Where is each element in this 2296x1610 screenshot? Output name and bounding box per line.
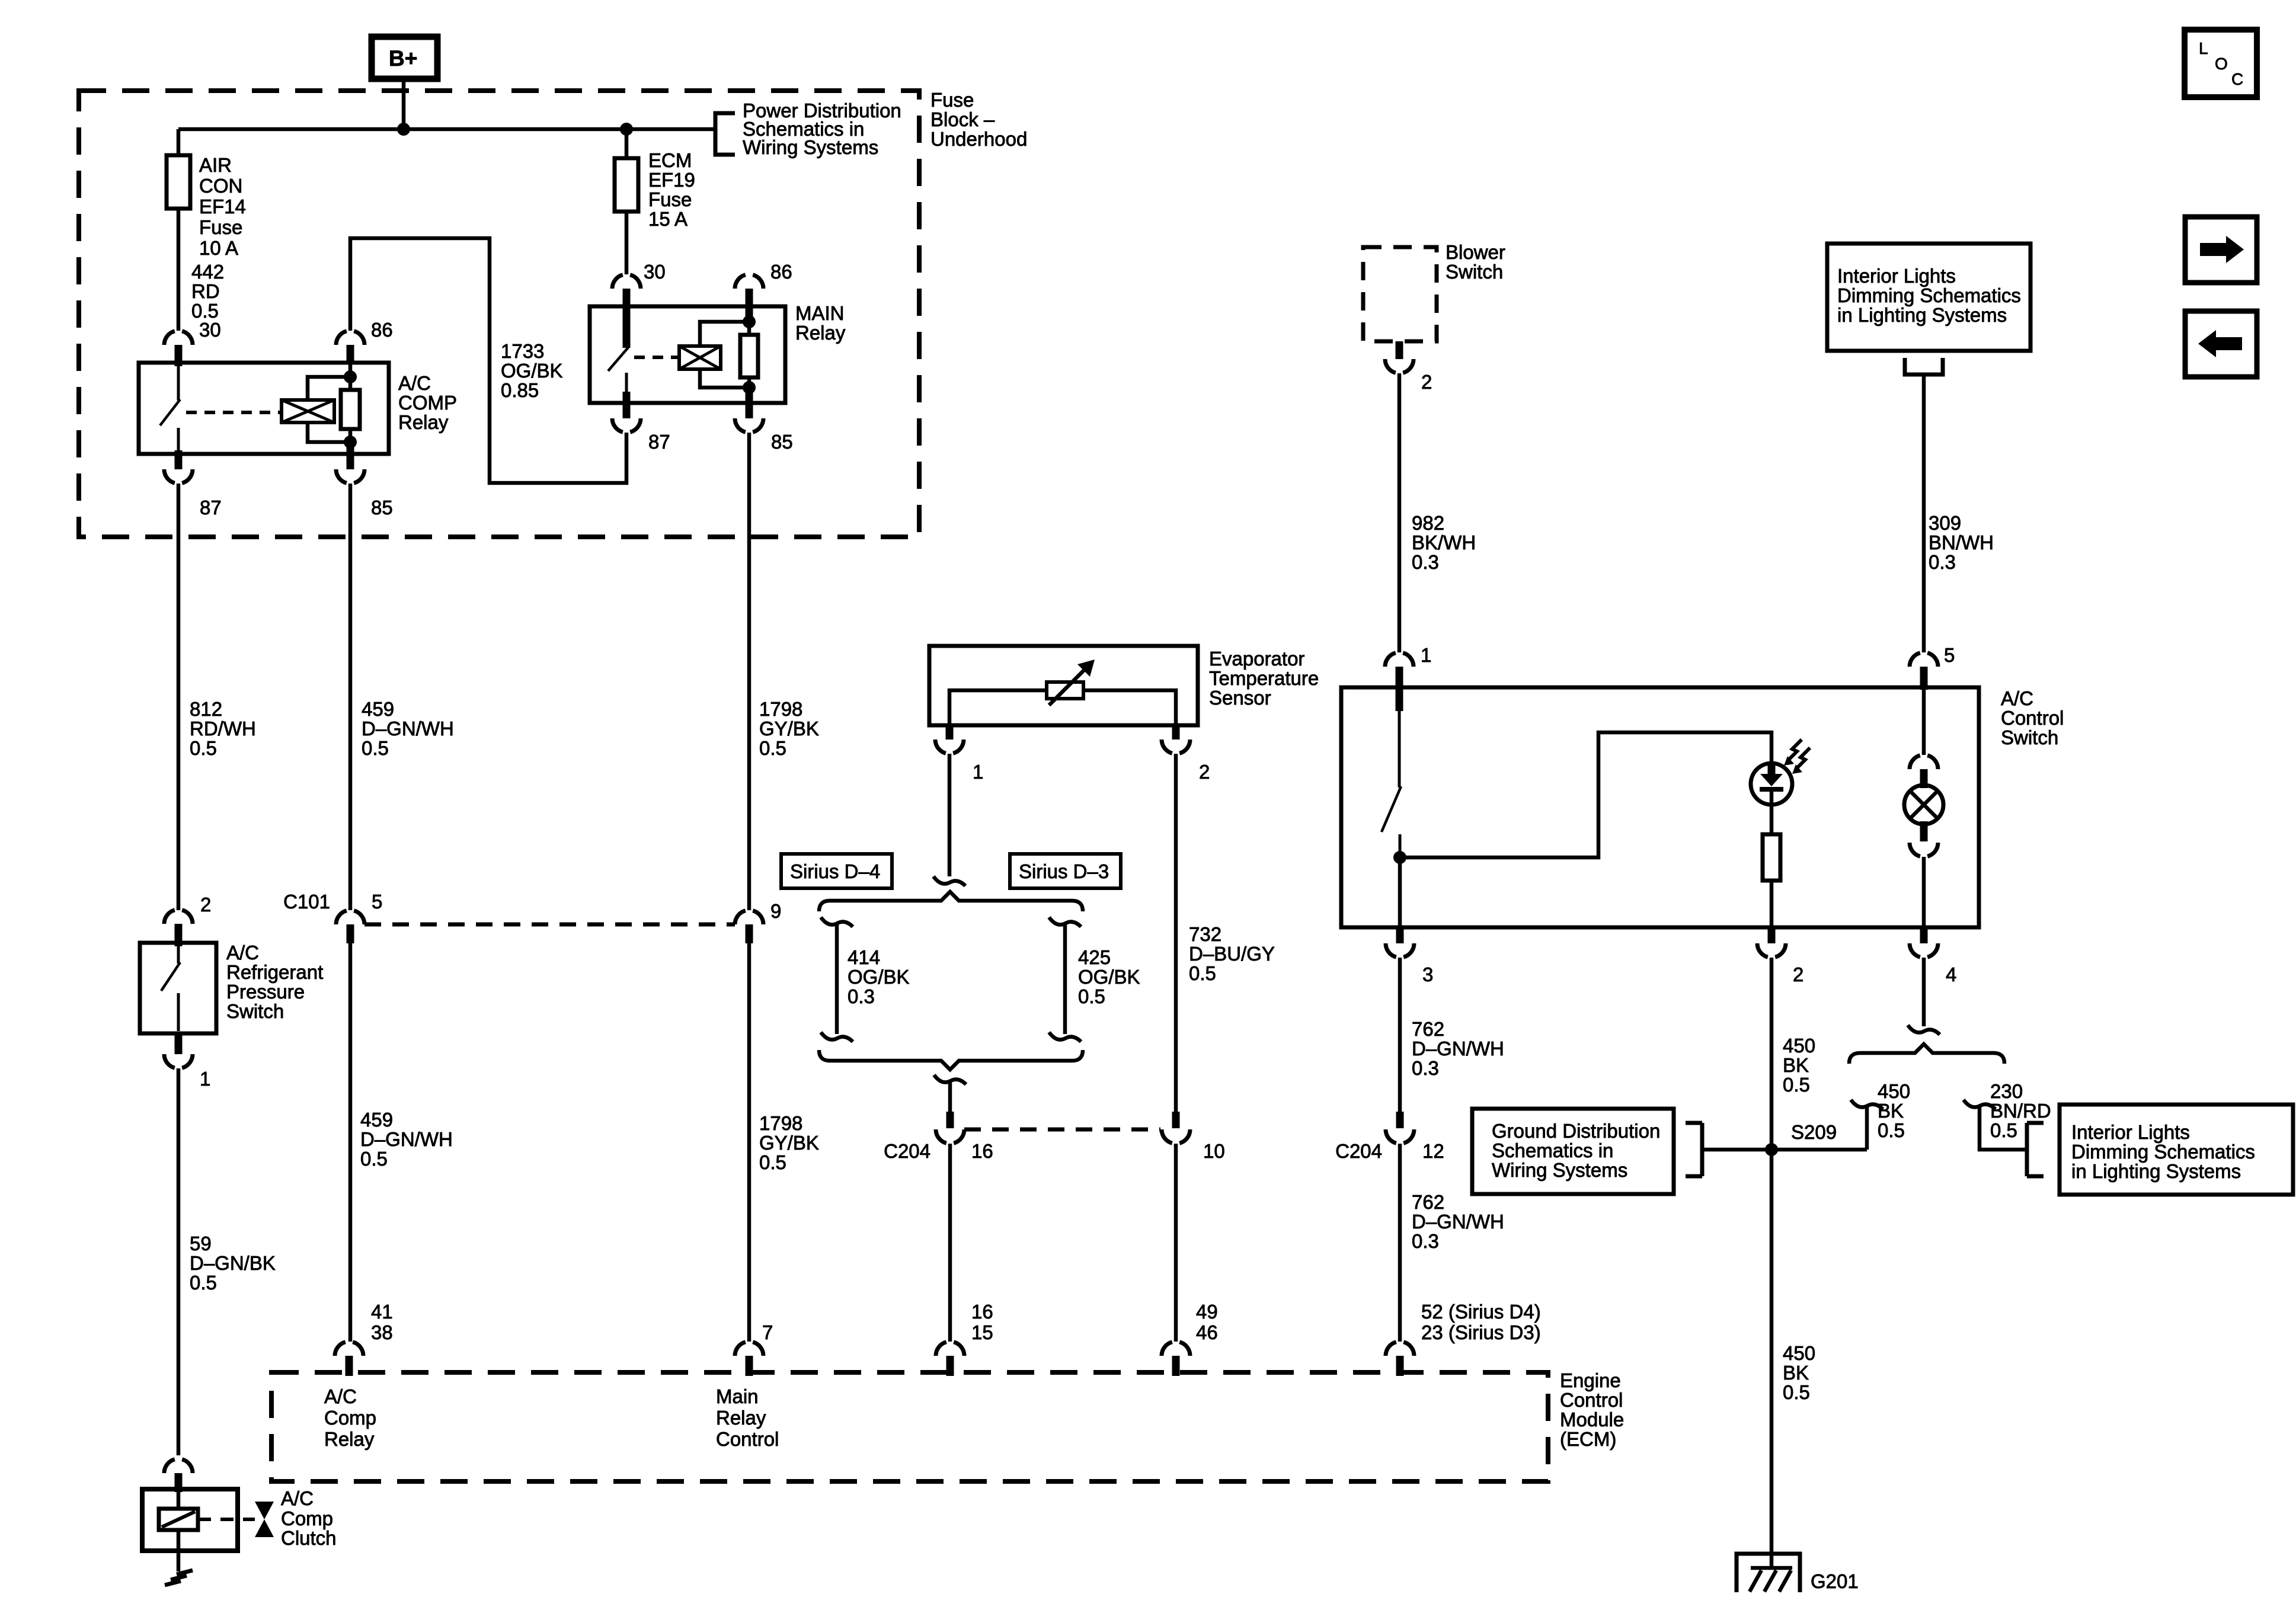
label Fuse Block - Underhood xyxy=(930,89,1027,150)
label 1733 OG/BK 0.85 xyxy=(501,340,563,401)
svg-text:450: 450 xyxy=(1878,1080,1910,1102)
wire 450 BK pin 2 to S209 xyxy=(1770,958,1774,1150)
svg-text:442: 442 xyxy=(191,261,224,283)
connector pin 9 xyxy=(735,911,763,924)
wire pin 4 to splice brace xyxy=(1922,958,1926,1026)
pin 2 stub evaporator sensor xyxy=(1172,725,1180,740)
svg-text:in Lighting Systems: in Lighting Systems xyxy=(2071,1160,2241,1182)
connector ECM pin 52/23 xyxy=(1386,1342,1414,1356)
svg-text:Dimming Schematics: Dimming Schematics xyxy=(2071,1141,2255,1163)
junction dot at B+ branch xyxy=(397,123,410,136)
svg-text:C101: C101 xyxy=(283,891,330,913)
svg-text:Wiring Systems: Wiring Systems xyxy=(1492,1159,1627,1181)
wire bus to fuse EF14 xyxy=(177,129,181,331)
svg-text:BN/WH: BN/WH xyxy=(1929,532,1994,553)
svg-text:Fuse: Fuse xyxy=(930,89,974,111)
svg-text:459: 459 xyxy=(362,698,394,720)
svg-text:86: 86 xyxy=(371,319,393,341)
A/C COMP Relay box xyxy=(139,363,389,454)
connector C204 pin 12 xyxy=(1396,1112,1404,1128)
svg-text:BK: BK xyxy=(1878,1100,1904,1122)
A/C COMP relay switch xyxy=(160,365,180,452)
pin 85 stub A/C COMP relay xyxy=(347,446,354,469)
splice brace top xyxy=(819,892,1083,911)
svg-text:0.5: 0.5 xyxy=(1878,1119,1905,1141)
callout bracket interior lights (bottom) xyxy=(2027,1123,2044,1176)
connector pin 1 of A/C control switch xyxy=(1385,653,1414,667)
svg-text:C204: C204 xyxy=(884,1140,930,1162)
svg-text:Clutch: Clutch xyxy=(281,1527,337,1549)
label A/C Control Switch xyxy=(2001,687,2064,748)
svg-text:59: 59 xyxy=(190,1233,212,1254)
svg-text:0.5: 0.5 xyxy=(362,737,389,759)
pin labels 41 38 (ECM A/C comp relay) xyxy=(371,1301,393,1343)
B+ power symbol xyxy=(372,37,437,79)
wire break hook below brace xyxy=(934,1075,966,1084)
svg-text:RD: RD xyxy=(191,280,220,302)
svg-text:Sirius D–4: Sirius D–4 xyxy=(790,860,880,882)
svg-text:0.3: 0.3 xyxy=(1412,1057,1439,1079)
pin labels 49 46 (ECM) xyxy=(1196,1301,1218,1343)
svg-text:85: 85 xyxy=(771,431,793,453)
splice brace bottom xyxy=(819,1050,1083,1070)
svg-text:87: 87 xyxy=(648,431,670,453)
branch 450 BK wire to S209 xyxy=(1851,1100,1883,1150)
lamp socket lower connector xyxy=(1920,821,1928,841)
connector pin 30 of MAIN relay xyxy=(612,275,641,289)
svg-text:D–GN/BK: D–GN/BK xyxy=(190,1252,276,1274)
S209 splice wires xyxy=(1702,1148,1867,1152)
connector pin 4 of A/C control switch xyxy=(1910,943,1938,957)
evaporator sensor thermistor xyxy=(1047,660,1095,705)
svg-text:Relay: Relay xyxy=(324,1428,375,1450)
MAIN relay coil resistor xyxy=(740,322,758,388)
junction dot coil top xyxy=(344,370,357,383)
label 450 BK 0.5 (branch) xyxy=(1878,1080,1910,1141)
svg-text:0.5: 0.5 xyxy=(1783,1074,1810,1096)
label ECM EF19 Fuse 15 A xyxy=(648,149,695,230)
Engine Control Module dashed box xyxy=(271,1372,1548,1481)
svg-text:5: 5 xyxy=(1944,644,1955,666)
svg-text:15: 15 xyxy=(971,1321,993,1343)
svg-text:BK: BK xyxy=(1783,1362,1809,1384)
label 1798 GY/BK 0.5 lower xyxy=(759,1112,819,1173)
svg-text:A/C: A/C xyxy=(226,942,259,964)
MAIN relay switch xyxy=(608,346,629,392)
Sirius D-3 option box xyxy=(1010,854,1121,888)
pin 4 stub A/C control switch xyxy=(1920,927,1928,943)
svg-text:Switch: Switch xyxy=(1446,261,1503,283)
connector pin 3 of A/C control switch xyxy=(1386,943,1414,957)
svg-text:D–GN/WH: D–GN/WH xyxy=(1412,1038,1504,1060)
svg-text:0.5: 0.5 xyxy=(759,737,786,759)
label Power Distribution Schematics in Wiring Systems xyxy=(743,100,901,158)
connector pin 87 of MAIN relay xyxy=(612,418,641,432)
svg-text:Temperature: Temperature xyxy=(1209,667,1319,689)
label 309 BN/WH 0.3 xyxy=(1929,512,1994,573)
svg-text:BK/WH: BK/WH xyxy=(1412,532,1476,553)
svg-text:AIR: AIR xyxy=(199,154,232,176)
connector ECM pin 16/15 xyxy=(936,1342,964,1356)
wire 59 D-GN/BK to A/C comp clutch xyxy=(177,1068,181,1455)
svg-text:0.5: 0.5 xyxy=(759,1151,786,1173)
connector pin 2 of pressure switch xyxy=(164,910,193,924)
svg-text:1798: 1798 xyxy=(759,698,802,720)
junction dot at switch output xyxy=(1393,851,1406,864)
label 459 D-GN/WH 0.5 upper xyxy=(362,698,454,759)
svg-text:85: 85 xyxy=(371,497,393,518)
svg-text:10 A: 10 A xyxy=(199,237,238,259)
svg-text:Comp: Comp xyxy=(324,1407,376,1429)
connector pin 1 of evaporator sensor xyxy=(935,740,964,753)
svg-text:Comp: Comp xyxy=(281,1507,333,1529)
svg-text:D–GN/WH: D–GN/WH xyxy=(360,1128,453,1150)
pin 87 stub A/C COMP relay xyxy=(175,450,183,469)
pin 87 stub MAIN relay xyxy=(623,392,631,418)
svg-text:2: 2 xyxy=(1199,761,1210,783)
pin 2 stub A/C control switch xyxy=(1768,927,1776,943)
svg-text:O: O xyxy=(2215,55,2228,73)
MAIN relay actuator brackets xyxy=(700,322,749,388)
svg-text:CON: CON xyxy=(199,175,242,197)
navigation arrow box right xyxy=(2185,217,2257,283)
A/C COMP relay actuator dashed link xyxy=(186,411,282,414)
svg-text:23 (Sirius D3): 23 (Sirius D3) xyxy=(1421,1321,1541,1343)
svg-text:0.3: 0.3 xyxy=(848,985,875,1007)
connector pin 87 of A/C COMP relay xyxy=(164,469,193,483)
svg-text:A/C: A/C xyxy=(281,1487,314,1509)
svg-text:309: 309 xyxy=(1929,512,1961,534)
svg-text:Interior Lights: Interior Lights xyxy=(1837,265,1956,287)
connector C204 dashed link xyxy=(964,1128,1160,1132)
connector pin 1 of pressure switch xyxy=(164,1054,193,1068)
wire LED to resistor xyxy=(1770,805,1774,834)
svg-text:0.5: 0.5 xyxy=(1990,1119,2017,1141)
backlight lamp xyxy=(1904,785,1943,824)
fuse AIR CON EF14 xyxy=(167,155,190,209)
svg-text:B+: B+ xyxy=(389,46,417,71)
svg-text:1733: 1733 xyxy=(501,340,544,362)
svg-text:425: 425 xyxy=(1078,946,1111,968)
wire evaporator pin 1 down to splice brace xyxy=(948,754,952,876)
svg-text:Fuse: Fuse xyxy=(648,188,692,210)
svg-text:16: 16 xyxy=(971,1301,993,1323)
label A/C Refrigerant Pressure Switch xyxy=(226,942,323,1022)
blower switch pin 2 stub xyxy=(1396,341,1403,359)
svg-text:S209: S209 xyxy=(1791,1121,1837,1143)
splice brace pin 4 xyxy=(1849,1044,2004,1064)
svg-text:30: 30 xyxy=(199,319,221,341)
A/C COMP relay coil resistor xyxy=(341,363,360,446)
svg-text:Switch: Switch xyxy=(226,1000,284,1022)
svg-text:15 A: 15 A xyxy=(648,208,687,230)
svg-text:762: 762 xyxy=(1412,1191,1444,1213)
fuse ECM EF19 xyxy=(615,158,638,212)
label 414 OG/BK 0.3 xyxy=(848,946,910,1007)
connector pin 85 of MAIN relay xyxy=(735,418,763,432)
svg-text:0.3: 0.3 xyxy=(1412,1230,1439,1252)
svg-text:OG/BK: OG/BK xyxy=(501,360,563,382)
svg-text:9: 9 xyxy=(770,900,781,922)
resistor in A/C control switch xyxy=(1763,834,1780,881)
connector C101 dashed link xyxy=(364,923,735,927)
svg-text:0.5: 0.5 xyxy=(1189,962,1216,984)
wire 459 D-GN/WH lower (C101 to ECM) xyxy=(348,943,353,1342)
svg-text:87: 87 xyxy=(200,497,222,518)
label 1798 GY/BK 0.5 upper xyxy=(759,698,819,759)
connector ECM pin 41/38 xyxy=(335,1342,363,1356)
svg-text:Switch: Switch xyxy=(2001,726,2058,748)
svg-text:MAIN: MAIN xyxy=(795,302,845,324)
wire break hook pin 4 xyxy=(1908,1025,1940,1035)
svg-text:12: 12 xyxy=(1422,1140,1444,1162)
Blower Switch dashed box xyxy=(1363,247,1437,341)
connector pin 2 of evaporator sensor xyxy=(1162,740,1190,753)
svg-text:OG/BK: OG/BK xyxy=(1078,966,1140,988)
wire C204 16 to ECM xyxy=(948,1144,952,1342)
label 230 BN/RD 0.5 xyxy=(1990,1080,2051,1141)
svg-text:Relay: Relay xyxy=(716,1407,766,1429)
pin 3 stub A/C control switch xyxy=(1396,927,1404,943)
svg-text:Relay: Relay xyxy=(795,322,846,344)
svg-text:52 (Sirius D4): 52 (Sirius D4) xyxy=(1421,1301,1541,1323)
connector C101 pin 5 xyxy=(336,911,364,924)
power bus wire xyxy=(178,127,715,132)
svg-text:GY/BK: GY/BK xyxy=(759,1132,819,1154)
svg-text:Engine: Engine xyxy=(1560,1369,1621,1391)
svg-text:OG/BK: OG/BK xyxy=(848,966,910,988)
svg-text:0.85: 0.85 xyxy=(501,379,539,401)
callout bracket Power Distribution xyxy=(715,113,735,155)
Ground Distribution callout box xyxy=(1472,1109,1674,1194)
label 459 D-GN/WH 0.5 lower xyxy=(360,1109,453,1170)
svg-text:0.3: 0.3 xyxy=(1412,551,1439,573)
svg-text:EF14: EF14 xyxy=(199,196,246,217)
svg-text:230: 230 xyxy=(1990,1080,2023,1102)
callout bracket below interior lights box xyxy=(1905,358,1943,375)
label Main Relay Control (ECM internal) xyxy=(716,1385,779,1450)
svg-text:ECM: ECM xyxy=(648,149,692,171)
connector C204 pin 16 xyxy=(946,1112,954,1128)
connector pin 2 of blower switch xyxy=(1385,359,1414,373)
svg-text:732: 732 xyxy=(1189,923,1221,945)
svg-text:3: 3 xyxy=(1422,964,1433,985)
svg-text:0.3: 0.3 xyxy=(1929,551,1956,573)
connector pin 86 of MAIN relay xyxy=(735,275,763,289)
Sirius D-4 option box xyxy=(781,854,892,888)
label Blower Switch xyxy=(1446,241,1505,283)
svg-text:5: 5 xyxy=(372,891,382,913)
branch 230 BN/RD wire to interior lights dimming xyxy=(1964,1100,2027,1150)
evaporator sensor internal wiring xyxy=(949,690,1176,725)
label 762 D-GN/WH 0.3 lower xyxy=(1412,1191,1504,1252)
svg-text:A/C: A/C xyxy=(2001,687,2033,709)
A/C COMP relay coil actuator X-box xyxy=(282,400,334,422)
svg-text:450: 450 xyxy=(1783,1035,1815,1057)
LOC reference box xyxy=(2185,30,2257,97)
svg-text:Block –: Block – xyxy=(930,108,995,130)
internal wire from switch to LED branch xyxy=(1400,732,1771,857)
MAIN Relay box xyxy=(590,306,785,403)
lamp socket upper connector xyxy=(1922,690,1926,755)
svg-text:RD/WH: RD/WH xyxy=(190,718,256,740)
junction dot MAIN coil top xyxy=(743,315,756,328)
wire brace to C204 pin 16 xyxy=(948,1083,952,1112)
svg-text:4: 4 xyxy=(1946,964,1956,985)
Fuse Block - Underhood dashed box xyxy=(79,91,919,537)
wire B+ to bus xyxy=(402,78,406,129)
svg-text:Blower: Blower xyxy=(1446,241,1505,263)
label 762 D-GN/WH 0.3 upper xyxy=(1412,1018,1504,1079)
svg-text:Relay: Relay xyxy=(398,411,449,433)
pin 1 stub pressure switch xyxy=(175,1033,183,1054)
svg-text:450: 450 xyxy=(1783,1342,1815,1364)
svg-text:49: 49 xyxy=(1196,1301,1218,1323)
svg-text:0.5: 0.5 xyxy=(190,737,217,759)
wire 309 BN/WH to A/C control switch pin 5 xyxy=(1922,375,1926,652)
svg-text:38: 38 xyxy=(371,1321,393,1343)
MAIN relay coil actuator X-box xyxy=(679,346,721,369)
A/C Comp Clutch box xyxy=(142,1489,238,1551)
svg-text:2: 2 xyxy=(200,894,211,916)
svg-text:812: 812 xyxy=(190,698,222,720)
svg-text:Dimming Schematics: Dimming Schematics xyxy=(1837,284,2021,306)
label wire 442 RD 0.5 xyxy=(191,261,224,322)
label 450 BK 0.5 (pin 2 wire) xyxy=(1783,1035,1815,1096)
svg-text:G201: G201 xyxy=(1811,1570,1859,1592)
Evaporator Temperature Sensor box xyxy=(929,646,1198,725)
svg-text:1: 1 xyxy=(973,761,983,783)
svg-text:C204: C204 xyxy=(1335,1140,1382,1162)
svg-text:C: C xyxy=(2231,70,2243,88)
label Engine Control Module (ECM) xyxy=(1560,1369,1624,1450)
svg-text:COMP: COMP xyxy=(398,392,457,414)
svg-text:2: 2 xyxy=(1421,371,1432,393)
svg-text:Wiring Systems: Wiring Systems xyxy=(743,136,878,158)
connector pin 2 of A/C control switch xyxy=(1757,943,1786,957)
connector C204 pin 10 xyxy=(1172,1112,1180,1128)
svg-text:L: L xyxy=(2199,39,2208,57)
label 450 BK 0.5 (ground wire) xyxy=(1783,1342,1815,1403)
label Evaporator Temperature Sensor xyxy=(1209,648,1319,709)
label 425 OG/BK 0.5 xyxy=(1078,946,1140,1007)
wire break hook above brace xyxy=(933,876,965,886)
svg-text:Refrigerant: Refrigerant xyxy=(226,961,323,983)
Interior Lights Dimming callout box (top) xyxy=(1827,244,2030,351)
svg-text:Schematics in: Schematics in xyxy=(1492,1140,1613,1161)
svg-text:7: 7 xyxy=(762,1321,773,1343)
svg-text:0.5: 0.5 xyxy=(360,1148,388,1170)
wire 762 D-GN/WH upper (pin 3 to C204 12) xyxy=(1398,958,1402,1112)
svg-text:Control: Control xyxy=(1560,1389,1623,1411)
wire 812 RD/WH pin 87 to pressure switch xyxy=(177,484,181,910)
svg-text:(ECM): (ECM) xyxy=(1560,1428,1616,1450)
label 982 BK/WH 0.3 xyxy=(1412,512,1476,573)
connector ECM pin 49/46 xyxy=(1162,1342,1190,1356)
wire switch output to pin 3 xyxy=(1398,857,1402,927)
svg-text:414: 414 xyxy=(848,946,880,968)
A/C Refrigerant Pressure Switch box xyxy=(140,943,216,1033)
pressure switch contacts xyxy=(161,946,180,1031)
clutch actuator dashed link xyxy=(198,1518,255,1521)
svg-text:EF19: EF19 xyxy=(648,169,695,191)
LED indicator (photo sensor) xyxy=(1751,763,1792,805)
Interior Lights Dimming callout box (bottom) xyxy=(2060,1105,2293,1195)
svg-text:0.5: 0.5 xyxy=(1783,1381,1810,1403)
label A/C COMP Relay xyxy=(398,372,457,433)
svg-text:1: 1 xyxy=(1421,644,1431,666)
label A/C Comp Relay (ECM internal) xyxy=(324,1385,376,1450)
svg-text:2: 2 xyxy=(1793,964,1803,985)
option branch 414 wire xyxy=(821,917,853,1042)
clutch valve bowtie symbol xyxy=(255,1502,274,1537)
svg-text:1: 1 xyxy=(200,1068,210,1090)
wire 982 BK/WH blower to A/C control switch xyxy=(1398,373,1402,652)
connector pin 5 of A/C control switch xyxy=(1910,653,1938,667)
svg-text:86: 86 xyxy=(770,261,792,283)
svg-text:41: 41 xyxy=(371,1301,393,1323)
svg-text:BN/RD: BN/RD xyxy=(1990,1100,2051,1122)
svg-text:Ground Distribution: Ground Distribution xyxy=(1492,1120,1660,1142)
svg-text:459: 459 xyxy=(360,1109,393,1131)
svg-text:D–BU/GY: D–BU/GY xyxy=(1189,943,1275,965)
wire 450 BK S209 to G201 xyxy=(1770,1150,1774,1568)
connector at A/C comp clutch xyxy=(164,1459,193,1473)
svg-text:Underhood: Underhood xyxy=(930,128,1027,150)
navigation arrow box left xyxy=(2185,311,2257,377)
svg-text:D–GN/WH: D–GN/WH xyxy=(1412,1211,1504,1233)
junction dot MAIN coil bottom xyxy=(743,381,756,394)
svg-text:Main: Main xyxy=(716,1385,759,1407)
svg-text:0.5: 0.5 xyxy=(190,1272,217,1294)
label A/C Comp Clutch xyxy=(281,1487,337,1549)
LED light arrows xyxy=(1784,740,1810,774)
svg-text:Interior Lights: Interior Lights xyxy=(2071,1121,2190,1143)
svg-text:A/C: A/C xyxy=(398,372,431,394)
pin 1 stub evaporator sensor xyxy=(946,725,954,740)
svg-text:762: 762 xyxy=(1412,1018,1444,1040)
option branch 425 wire xyxy=(1049,917,1081,1042)
svg-text:Control: Control xyxy=(2001,707,2064,729)
svg-text:982: 982 xyxy=(1412,512,1444,534)
A/C comp clutch coil xyxy=(159,1492,198,1571)
label MAIN Relay xyxy=(795,302,846,344)
svg-text:10: 10 xyxy=(1203,1140,1225,1162)
svg-text:D–GN/WH: D–GN/WH xyxy=(362,718,454,740)
label AIR CON EF14 Fuse 10 A xyxy=(199,154,246,259)
svg-text:30: 30 xyxy=(644,261,666,283)
svg-text:Control: Control xyxy=(716,1428,779,1450)
pin 85 stub MAIN relay xyxy=(746,388,753,418)
connector pin 30 of A/C COMP relay xyxy=(164,331,193,345)
svg-text:Sirius D–3: Sirius D–3 xyxy=(1019,860,1109,882)
junction dot at ECM fuse branch xyxy=(620,123,633,136)
svg-text:in Lighting Systems: in Lighting Systems xyxy=(1837,304,2007,326)
junction dot coil bottom xyxy=(344,436,357,449)
MAIN relay actuator dashed link xyxy=(634,356,679,359)
svg-text:0.5: 0.5 xyxy=(1078,985,1105,1007)
junction dot S209 xyxy=(1765,1143,1778,1156)
wire 459 D-GN/WH upper (pin 85 to C101) xyxy=(348,484,353,910)
svg-text:A/C: A/C xyxy=(324,1385,357,1407)
connector ECM pin 7 xyxy=(735,1342,763,1356)
A/C COMP relay actuator brackets xyxy=(308,377,350,442)
wire C204 10 to ECM xyxy=(1174,1144,1178,1342)
label 812 RD/WH 0.5 xyxy=(190,698,256,759)
svg-text:Fuse: Fuse xyxy=(199,216,242,238)
svg-text:BK: BK xyxy=(1783,1054,1809,1076)
wire resistor to pin 2 xyxy=(1770,881,1774,927)
